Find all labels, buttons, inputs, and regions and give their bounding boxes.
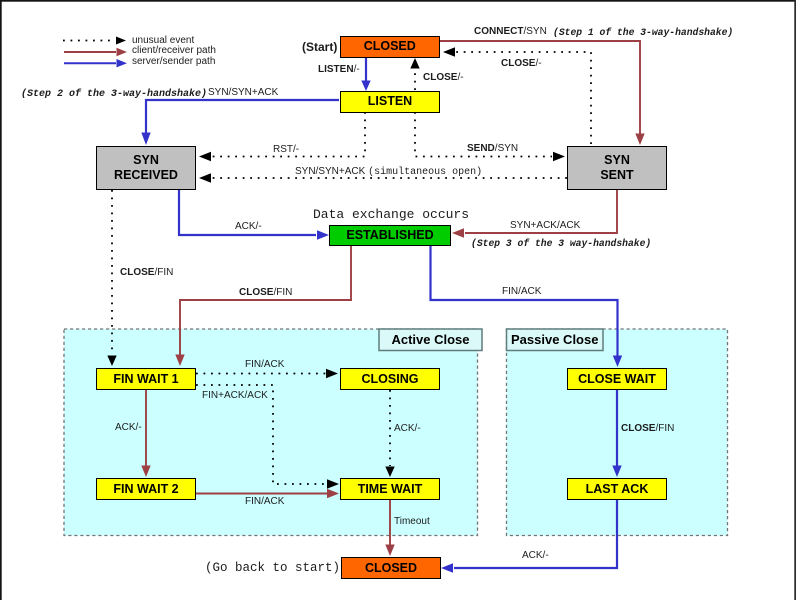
wire red SYN SENT->ESTABLISHED (SYN+ACK/ACK) xyxy=(465,190,617,233)
wire red CLOSED->SYN SENT (CONNECT/SYN) xyxy=(440,41,640,134)
legend red arrow xyxy=(64,51,116,53)
active close label box xyxy=(379,329,482,351)
label ACK/- (last ack to closed) xyxy=(522,551,549,561)
state box CLOSED (top) xyxy=(340,36,441,58)
label SYN/SYN+ACK (simultaneous open) xyxy=(295,167,482,178)
wire blue ESTABLISHED->CLOSE WAIT (FIN/ACK) xyxy=(431,246,618,356)
label FIN/ACK (fw1 to closing) xyxy=(245,360,284,370)
outer frame top xyxy=(0,0,796,2)
wire dotted FIN WAIT 1->TIME WAIT (FIN+ACK/ACK) xyxy=(196,385,327,484)
outer frame left xyxy=(0,0,2,600)
label CLOSE/- (listen to closed) xyxy=(423,73,464,83)
wire red ESTABLISHED->FIN WAIT 1 (CLOSE/FIN) xyxy=(180,246,351,355)
state box TIME WAIT xyxy=(340,478,440,500)
state box FIN WAIT 1 xyxy=(96,368,196,390)
label step1 xyxy=(553,28,733,38)
label Data exchange occurs xyxy=(313,208,469,221)
wire dotted CLOSING->TIME WAIT (ACK/-) xyxy=(389,390,391,466)
label CLOSE/- (syn sent to closed) xyxy=(501,59,542,69)
label FIN/ACK (blue path) xyxy=(502,287,541,297)
label ACK/- (syn received to established) xyxy=(235,222,262,232)
wire red FIN WAIT 1->FIN WAIT 2 (ACK/-) xyxy=(145,390,147,466)
label ACK/- (fw1 to fw2) xyxy=(115,423,142,433)
wire red FIN WAIT 2->TIME WAIT (FIN/ACK) xyxy=(196,493,327,495)
region label Passive Close xyxy=(507,329,604,351)
wire blue LISTEN->SYN RECEIVED (SYN/SYN+ACK) xyxy=(146,100,339,133)
label CLOSE/FIN (dotted path) xyxy=(120,268,173,278)
legend text unusual event xyxy=(132,36,194,46)
wire red TIME WAIT->CLOSED (Timeout) xyxy=(389,500,391,545)
wire blue CLOSED->LISTEN xyxy=(365,58,367,83)
label step3 xyxy=(471,239,651,249)
passive close label box xyxy=(507,329,604,351)
label ACK/- (closing to time wait) xyxy=(394,424,421,434)
label CLOSE/FIN (red path) xyxy=(239,288,292,298)
wire dotted SYN RECEIVED<-LISTEN (RST/-) xyxy=(212,112,365,157)
wire blue SYN RECEIVED->ESTABLISHED (ACK/-) xyxy=(179,190,316,235)
wire dotted SYN SENT->SYN RECEIVED (simultaneous open) xyxy=(212,177,567,179)
legend dotted arrow xyxy=(63,40,114,42)
wire dotted FIN WAIT 1->CLOSING (FIN/ACK) xyxy=(196,373,326,375)
label step2 xyxy=(21,90,207,100)
label (Start) xyxy=(302,41,337,53)
label Timeout xyxy=(394,517,430,527)
label SYN/SYN+ACK (step2) xyxy=(208,88,278,98)
state box CLOSED (bottom) xyxy=(341,557,441,579)
outer frame right xyxy=(794,0,796,600)
state box LAST ACK xyxy=(567,478,667,500)
label FIN/ACK (fw2 to time wait) xyxy=(245,497,284,507)
passive close region xyxy=(507,329,728,536)
state box FIN WAIT 2 xyxy=(96,478,196,500)
legend text client/receiver path xyxy=(132,46,216,56)
active close region xyxy=(64,329,478,536)
label LISTEN/- xyxy=(318,65,360,75)
label RST/- xyxy=(273,145,299,155)
label SEND/SYN xyxy=(467,144,518,154)
label (Go back to start) xyxy=(205,562,340,575)
state box SYN SENT xyxy=(567,146,667,190)
wire dotted LISTEN->SYN SENT (SEND/SYN) xyxy=(415,112,552,157)
legend text server/sender path xyxy=(132,57,215,67)
state box CLOSE WAIT xyxy=(567,368,667,390)
wire dotted SYN SENT->CLOSED (CLOSE/-) xyxy=(456,52,591,144)
label CLOSE/FIN (close wait to last ack) xyxy=(621,424,674,434)
legend blue arrow xyxy=(64,62,116,64)
label FIN+ACK/ACK xyxy=(202,391,268,401)
wire dotted SYN RECEIVED->FIN WAIT 1 (CLOSE/FIN) xyxy=(111,190,113,355)
label SYN+ACK/ACK xyxy=(510,221,580,231)
wire dotted LISTEN->CLOSED (CLOSE/-) xyxy=(414,69,416,90)
state box SYN RECEIVED xyxy=(96,146,196,190)
wire blue CLOSE WAIT->LAST ACK (CLOSE/FIN) xyxy=(616,390,618,466)
wire blue LAST ACK->CLOSED (ACK/-) xyxy=(454,500,617,568)
region label Active Close xyxy=(379,329,482,351)
state box ESTABLISHED xyxy=(329,225,451,247)
state box LISTEN xyxy=(340,91,440,113)
label CONNECT/SYN xyxy=(474,27,547,37)
state box CLOSING xyxy=(340,368,440,390)
